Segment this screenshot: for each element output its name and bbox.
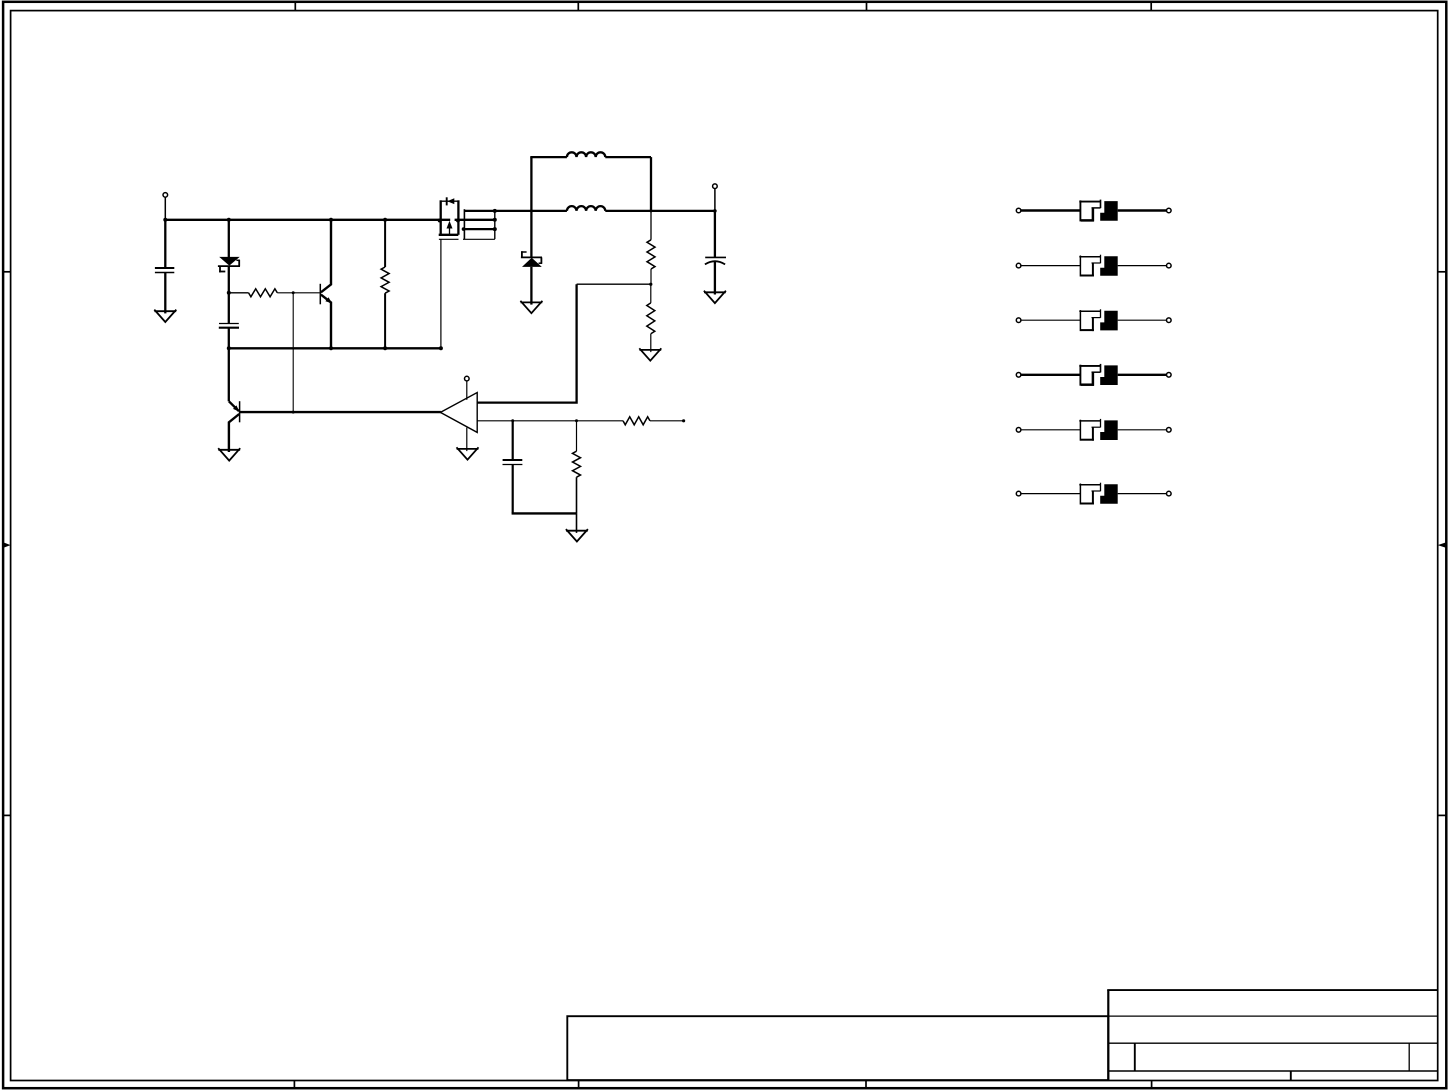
node dot M1 drain <box>456 219 460 223</box>
wire D1 to node <box>228 266 230 293</box>
title block divider 2 <box>1108 1042 1437 1044</box>
mosfet M1 body diode <box>446 197 448 205</box>
resistor R5 <box>573 451 581 477</box>
title block right box top edge <box>1107 989 1438 991</box>
node dot -input C3 <box>511 419 514 422</box>
node dot output <box>713 209 717 213</box>
winding block right bar <box>494 210 496 239</box>
filter bead FB6 row 6 <box>1016 491 1021 496</box>
mosfet M1 right bar <box>457 200 459 235</box>
filter bead FB5 row 5 <box>1016 428 1021 433</box>
capacitor C1 <box>155 267 174 269</box>
wire switch node <box>464 210 567 212</box>
output terminal J2 <box>713 184 718 189</box>
wire M1 gate lead <box>440 239 442 348</box>
filter bead FB1 row 1 <box>1016 208 1021 213</box>
node dot L1 right <box>650 209 653 212</box>
border extra bottom-right line <box>1152 1087 1439 1089</box>
wire C3 top <box>512 421 514 460</box>
mosfet M1 channel arrow <box>449 226 451 235</box>
wire C2 bottom <box>228 328 230 349</box>
input terminal J1 <box>163 193 168 198</box>
wire D1 top <box>228 220 230 257</box>
ground U1 <box>457 448 479 450</box>
wire node to C2 <box>228 293 230 324</box>
title block strip divider <box>1290 1071 1292 1080</box>
filter bead FB4 row 4 <box>1016 373 1021 378</box>
node dot feedback <box>649 283 652 286</box>
node dot bus2-gate <box>439 346 443 350</box>
resistor R3 <box>647 240 655 269</box>
winding block bottom line <box>463 238 495 240</box>
node dot bus-M1 source <box>438 219 442 223</box>
ground Q2 <box>218 449 240 451</box>
wire D2 top <box>530 211 532 258</box>
schottky diode D2 <box>521 256 542 258</box>
node dot block top <box>493 209 497 213</box>
wire R2 bottom <box>384 293 386 348</box>
transistor Q1 base bar <box>319 284 321 305</box>
wire L2 to output <box>605 210 715 212</box>
resistor R4 <box>647 303 655 334</box>
wire bottom bus <box>229 347 441 349</box>
wire R3 bottom <box>650 269 652 284</box>
node dot bus-Q1 <box>329 218 333 222</box>
op-amp U1 power terminal <box>465 376 470 381</box>
zener diode D1 <box>219 257 240 266</box>
wire U1 -input <box>477 420 623 422</box>
wire R1 right <box>277 292 319 294</box>
wire R5 bottom <box>576 477 578 513</box>
wire C4 bottom <box>714 262 716 295</box>
filter bead FB2 row 2 <box>1016 263 1021 268</box>
inductor L2 <box>567 206 605 211</box>
resistor R2 <box>381 267 389 293</box>
ground D2 <box>521 301 543 303</box>
capacitor C3 <box>503 459 523 461</box>
node dot R1-sense <box>292 291 295 294</box>
wire R4 top <box>650 284 652 303</box>
mosfet M1 left bar <box>440 200 442 235</box>
wire L1 top left <box>530 156 567 158</box>
border centre arrow left <box>3 542 11 548</box>
transistor Q1 collector <box>321 220 331 292</box>
wire C1 bottom <box>164 273 166 314</box>
wire top bus <box>164 219 450 221</box>
wire L1 top right <box>605 156 651 158</box>
wire R1 left <box>229 292 249 294</box>
wire sense vertical <box>292 293 294 412</box>
title block divider 1 <box>1108 1015 1437 1017</box>
title block small cell left edge <box>1134 1043 1136 1071</box>
wire op-amp output <box>240 411 441 413</box>
node dot block mid1 <box>493 218 497 222</box>
wire feedback horizontal <box>577 283 651 285</box>
title block left box <box>567 1016 1108 1080</box>
wire Q2 emitter feed <box>228 348 230 401</box>
wire R5 top <box>576 421 578 451</box>
wire R4 bottom <box>650 334 652 352</box>
wire C3 bottom <box>512 465 514 514</box>
wire U1 +input <box>477 284 576 402</box>
wire D2 bottom <box>530 267 532 305</box>
border zone ticks top <box>294 2 296 11</box>
wire comp bottom <box>512 512 577 514</box>
border centre arrow right <box>1438 542 1447 548</box>
winding block left bar <box>463 209 465 239</box>
ground comp <box>566 530 588 532</box>
wire L1 right leg <box>650 157 652 211</box>
wire C1 top <box>164 220 166 268</box>
filter bead FB3 row 3 <box>1016 318 1021 323</box>
node dot D1-R1 <box>227 291 231 295</box>
ground C4 <box>704 291 726 293</box>
mosfet M1 body diode wire <box>441 200 459 202</box>
resistor R6 <box>623 417 650 425</box>
transistor Q2 collector <box>229 414 239 452</box>
node dot bus2-left <box>227 346 231 350</box>
mosfet M1 gate line <box>439 238 459 240</box>
transistor Q1 emitter <box>321 295 331 349</box>
node dot bus-J1 <box>163 218 167 222</box>
node dot bus2-R2 <box>383 346 387 350</box>
node dot bus-D1 <box>227 218 231 222</box>
mosfet M1 bottom bar <box>439 234 459 236</box>
title block strip top <box>1108 1070 1437 1072</box>
op-amp U1 triangle <box>440 393 477 433</box>
title block right box left edge <box>1107 990 1109 1080</box>
border zone ticks right <box>1438 271 1447 273</box>
wire G7 lead <box>576 513 578 533</box>
ground C1 <box>154 310 176 312</box>
winding block mid line 2 <box>463 228 495 230</box>
border zone ticks bottom <box>293 1081 295 1089</box>
node dot bus2-Q1e <box>329 346 333 350</box>
wire L1 left leg <box>530 157 532 211</box>
node dot switch-L1 <box>530 209 533 212</box>
winding block mid line 1 <box>455 219 495 221</box>
title block small cell right edge <box>1408 1043 1410 1071</box>
wire R3 top <box>650 211 652 240</box>
node dot R6 end <box>682 419 685 422</box>
wire R2 top <box>384 220 386 267</box>
node dot block left <box>462 227 466 231</box>
node dot sense-output <box>292 411 295 414</box>
resistor R1 <box>249 289 278 297</box>
ground R4 <box>639 349 661 351</box>
transistor Q2 emitter <box>229 401 239 411</box>
border zone ticks left <box>3 271 11 273</box>
capacitor C2 <box>219 323 239 325</box>
capacitor C4 curved plate <box>705 261 725 264</box>
node dot bus-R2 <box>383 218 387 222</box>
capacitor C4 plus plate <box>705 256 726 258</box>
node dot -input R5 <box>575 419 578 422</box>
transistor Q2 base bar <box>239 401 241 422</box>
wire R6 right <box>650 420 684 422</box>
inductor L1 <box>567 152 605 157</box>
wire C4 top <box>714 211 716 258</box>
node dot block mid2 <box>493 227 497 231</box>
